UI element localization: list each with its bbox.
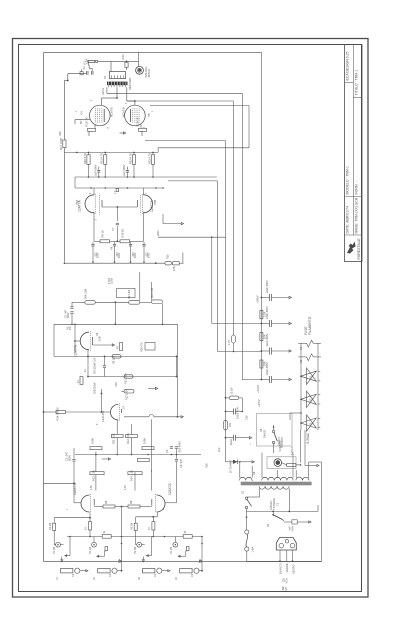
caps C5 — [170, 446, 173, 448]
standby switch — [272, 430, 274, 432]
svg-text:V.NEGRO: V.NEGRO — [279, 440, 282, 451]
svg-text:R21 4.7K: R21 4.7K — [100, 153, 104, 164]
svg-text:R14 10/5W: R14 10/5W — [55, 407, 59, 421]
svg-text:+470V: +470V — [257, 399, 261, 407]
svg-text:R15: R15 — [166, 254, 169, 259]
plug pin wires — [279, 550, 281, 561]
wire transformer to rail 233 — [127, 100, 234, 102]
preamp tube V1B — [157, 495, 166, 512]
svg-text:+410V: +410V — [256, 385, 260, 393]
svg-text:S1: S1 — [82, 66, 86, 70]
tube V2B — [111, 404, 119, 420]
svg-text:R10 100K: R10 100K — [125, 373, 128, 384]
tube V2A — [80, 332, 89, 350]
pill resistor on rail 233 — [232, 335, 236, 343]
svg-text:22uF 450V: 22uF 450V — [265, 280, 269, 293]
svg-text:12AX7A: 12AX7A — [73, 482, 77, 495]
svg-text:TP.1: TP.1 — [79, 119, 83, 125]
bias resistor R33 pill — [229, 396, 239, 400]
wire to rail 225 — [145, 140, 226, 142]
svg-text:R11 1.5K: R11 1.5K — [112, 433, 116, 444]
arrow right of driver — [163, 223, 181, 225]
filament star V1 — [301, 368, 317, 384]
driver grid resistor top — [116, 189, 119, 192]
cap C6 cluster — [176, 449, 178, 459]
title block row line 2 — [353, 97, 362, 99]
V2A plate bracket — [92, 337, 94, 345]
switch wire to left rail — [68, 73, 87, 75]
pilot lamp — [274, 459, 282, 467]
svg-text:BLANCO: BLANCO — [278, 563, 282, 574]
svg-text:R25: R25 — [59, 131, 62, 136]
svg-text:R17 100K: R17 100K — [59, 138, 63, 150]
cathode resistor ch3 — [152, 522, 155, 530]
screen resistor row — [87, 155, 90, 165]
svg-text:4.7K: 4.7K — [228, 340, 231, 345]
primary right wire down — [288, 489, 290, 512]
switch S1 contacts — [91, 71, 93, 75]
svg-text:22uF 450V: 22uF 450V — [265, 362, 269, 375]
filter resistor R30 — [260, 311, 263, 319]
svg-text:600V: 600V — [135, 252, 137, 258]
resistor mid 460 — [137, 459, 149, 462]
svg-text:R7: R7 — [115, 345, 119, 349]
transformer T1 primary winding dark band — [107, 82, 128, 86]
svg-text:R12 1.5K: R12 1.5K — [126, 433, 130, 444]
transformer T2 core — [241, 482, 312, 486]
feedback arrow mid — [120, 132, 124, 134]
primary left wire to switch — [259, 489, 261, 498]
B+ rail x249 short — [248, 106, 250, 148]
svg-text:10uF 450V: 10uF 450V — [265, 306, 269, 319]
svg-text:C6B 220uF: C6B 220uF — [94, 382, 96, 394]
coupling resistors between preamp tubes — [103, 505, 115, 508]
HV tap wires up — [261, 452, 263, 454]
bias resistor vertical pill — [224, 420, 228, 430]
svg-text:120VAC: 120VAC — [269, 500, 273, 510]
svg-text:1.5K: 1.5K — [90, 485, 93, 490]
svg-text:TITULO : TRM-1: TITULO : TRM-1 — [354, 70, 358, 96]
svg-text:V3A: V3A — [75, 200, 79, 205]
title block column divider — [352, 44, 354, 235]
svg-text:600V: 600V — [149, 252, 151, 258]
resistor R16 — [125, 62, 128, 67]
B+ rail x225 — [225, 141, 227, 462]
rectifier diode D7 — [225, 461, 233, 463]
fuse to bottom bus — [246, 551, 248, 561]
V1A grid wire — [74, 502, 81, 504]
vertical link right — [176, 356, 178, 376]
T2 primary winding — [259, 486, 289, 489]
svg-text:220K: 220K — [157, 230, 160, 236]
svg-text:R12 100K: R12 100K — [125, 389, 128, 400]
pot P4 stopper loop — [178, 555, 186, 557]
right 6.3 winding wire to right rail — [309, 461, 322, 463]
svg-text:J1: J1 — [55, 577, 59, 580]
V1A cathode — [89, 513, 91, 522]
svg-text:1K: 1K — [85, 527, 88, 530]
filament link 2 with diode D2 — [298, 356, 306, 358]
wire C12 feed — [218, 351, 262, 353]
svg-text:R22 4.7K: R22 4.7K — [128, 153, 132, 164]
wire plate to rail 249 — [150, 105, 249, 107]
svg-text:600V: 600V — [119, 252, 121, 258]
svg-text:R19 1K: R19 1K — [136, 117, 140, 126]
V2B grid rail — [101, 389, 103, 412]
bias cap 2 — [233, 435, 235, 441]
bus y454.5 — [75, 454, 201, 456]
cap row y245 — [91, 243, 94, 245]
volume pot P2 — [92, 542, 97, 547]
svg-text:T2: T2 — [276, 502, 280, 506]
svg-text:C6A 220uF 16V: C6A 220uF 16V — [93, 357, 96, 374]
cathode wire ch1 — [54, 517, 90, 519]
svg-text:R10 1K: R10 1K — [120, 229, 124, 238]
AC plug — [276, 538, 296, 551]
cap C6A — [104, 356, 106, 365]
svg-text:V2B: V2B — [97, 336, 101, 341]
svg-text:R6: R6 — [104, 500, 108, 504]
driver tube V3A — [85, 195, 94, 213]
resistor R17 on left rail — [63, 140, 66, 148]
logo mark — [347, 242, 356, 254]
svg-text:100uF 50V: 100uF 50V — [236, 407, 239, 419]
svg-text:P1 1M: P1 1M — [53, 547, 56, 554]
svg-text:J4: J4 — [174, 577, 178, 580]
svg-text:2K2: 2K2 — [218, 447, 221, 452]
arrow small mid — [102, 458, 109, 460]
svg-text:AZUL: AZUL — [101, 87, 105, 95]
right link down — [162, 304, 164, 325]
switch S3 — [273, 515, 282, 520]
V1B plate — [151, 499, 153, 506]
cap C1 cluster — [73, 448, 75, 459]
rail x217 — [217, 181, 219, 352]
filter resistor R32 — [260, 360, 263, 368]
V2A grid wire — [75, 340, 80, 342]
filter cap C10 — [268, 294, 270, 301]
cathode resistor ch1 — [89, 522, 92, 530]
wire y180.9 — [168, 180, 218, 182]
svg-text:1K: 1K — [84, 369, 87, 372]
motor cap — [292, 520, 297, 524]
filter cap C13 — [268, 376, 270, 383]
svg-text:R9 1K: R9 1K — [100, 230, 104, 238]
svg-text:DATE: ABR/01/74: DATE: ABR/01/74 — [345, 206, 349, 234]
T2 secondary winding HV — [262, 477, 294, 480]
pot P3 ground — [151, 537, 153, 556]
wire secondary to output line — [110, 61, 112, 71]
svg-text:.1uF 600V: .1uF 600V — [93, 164, 97, 176]
svg-text:T.POWER: T.POWER — [272, 498, 276, 510]
wire into filament rails — [290, 412, 301, 414]
svg-text:2K4 1/2W: 2K4 1/2W — [85, 288, 87, 299]
transformer T1 secondary winding — [109, 72, 125, 79]
wire to speaker jack — [127, 60, 139, 62]
svg-text:P3 1M: P3 1M — [134, 547, 137, 554]
svg-text:R13 1.5K: R13 1.5K — [92, 470, 96, 481]
preamp tube V1A — [81, 495, 89, 512]
V2A cathode bus — [87, 350, 89, 377]
grid leak resistor right — [142, 447, 154, 450]
svg-text:100K: 100K — [143, 438, 147, 444]
svg-text:1.6A: 1.6A — [250, 547, 254, 553]
T2 secondary taps — [239, 462, 241, 478]
left stub verticals — [74, 177, 76, 188]
components right of V2A — [120, 343, 123, 351]
arrow mid low — [148, 388, 155, 390]
fuse F1 — [88, 60, 95, 62]
svg-text:+345V: +345V — [256, 295, 260, 303]
rail x211 — [211, 237, 213, 323]
lamp resistor — [287, 464, 296, 467]
volume pot P4 — [173, 542, 178, 547]
svg-text:6CA7B: 6CA7B — [122, 107, 126, 117]
svg-text:12AU7A: 12AU7A — [101, 410, 105, 422]
left rail x54 — [53, 324, 55, 356]
svg-text:R26 47K: R26 47K — [141, 342, 144, 352]
svg-text:ECA DESIGN 6.25: ECA DESIGN 6.25 — [345, 52, 349, 81]
svg-text:V5: V5 — [147, 113, 151, 117]
bus y511 — [247, 510, 319, 512]
svg-text:SECUND: SECUND — [128, 78, 132, 90]
svg-text:1K: 1K — [77, 380, 80, 383]
svg-text:100K: 100K — [91, 438, 95, 444]
wire y237 mid — [158, 236, 226, 238]
bus y324.3 — [54, 323, 178, 325]
input jack J4 — [180, 569, 192, 573]
pill resistor on bus2 — [124, 375, 133, 378]
feed resistor ch3 — [135, 517, 137, 523]
rail x177 — [177, 324, 179, 417]
svg-text:R16: R16 — [121, 54, 125, 60]
wire V4 grid left — [75, 119, 91, 121]
svg-text:1.5K: 1.5K — [124, 485, 127, 490]
svg-text:R14 1.5K: R14 1.5K — [130, 470, 134, 481]
svg-text:6.3VCA: 6.3VCA — [291, 446, 294, 455]
svg-text:NAME: TRM-(XX).SCH: NAME: TRM-(XX).SCH — [354, 197, 358, 233]
row wires y302.3 — [77, 301, 85, 303]
filter resistor R31 — [260, 333, 263, 341]
feedback wire top — [134, 51, 262, 53]
connector circle — [95, 60, 97, 62]
second bus y376 — [88, 376, 177, 378]
mains switch S2 — [245, 497, 247, 499]
B+ rail x261 — [261, 52, 263, 379]
wire fuse to switch — [87, 60, 90, 62]
svg-text:V4: V4 — [80, 111, 84, 115]
svg-text:FORESTILLE: FORESTILLE — [357, 238, 361, 260]
svg-text:R5 1M: R5 1M — [130, 523, 133, 530]
svg-text:R8: R8 — [129, 500, 133, 504]
svg-text:R18 1K: R18 1K — [85, 117, 89, 126]
bias cap 1 — [233, 409, 235, 415]
input jack J2 — [98, 569, 110, 573]
svg-text:2K4 1/2W: 2K4 1/2W — [152, 287, 154, 298]
svg-text:FILAMENTO: FILAMENTO — [308, 316, 312, 335]
grid leak resistor left — [90, 447, 102, 450]
svg-text:100uF: 100uF — [230, 438, 233, 445]
bus box resistor — [173, 262, 180, 265]
wire V4 plate — [116, 87, 118, 98]
svg-text:1K: 1K — [148, 527, 151, 530]
wire V5 plate — [126, 87, 128, 101]
arrow near transformer — [240, 461, 252, 463]
vertical x151 plate to V1B — [151, 419, 153, 490]
svg-text:NEGRO: NEGRO — [291, 564, 295, 574]
wires into driver tubes — [93, 188, 95, 195]
cathode bracket — [101, 200, 103, 207]
bias resistors under driver — [100, 240, 110, 243]
title block row line 1 — [345, 81, 354, 83]
bus y177 — [75, 176, 217, 178]
coupling pill resistors row — [85, 301, 96, 305]
arrow right PSU — [297, 521, 308, 523]
svg-text:J2: J2 — [92, 577, 96, 580]
svg-text:600V: 600V — [98, 252, 100, 258]
svg-text:T1: T1 — [103, 75, 107, 79]
svg-text:VCA: VCA — [284, 578, 288, 584]
coupling cap row — [97, 170, 100, 172]
svg-text:C7: C7 — [111, 227, 115, 231]
bus pill resistor — [165, 262, 172, 265]
R on ground loop y412 — [44, 411, 57, 413]
svg-text:150: 150 — [229, 422, 232, 427]
verticals from resistor row to tubes — [95, 452, 97, 455]
riser from pills — [139, 272, 141, 301]
filter cap C12 — [268, 348, 270, 355]
hum resistor ch4 on bus — [183, 535, 192, 539]
title block box — [345, 45, 363, 262]
svg-text:600V: 600V — [68, 312, 70, 318]
svg-text:400V: 400V — [292, 525, 295, 531]
svg-text:1M: 1M — [69, 327, 72, 330]
bottom bus wire — [247, 560, 322, 562]
filament feed wires down — [300, 430, 302, 463]
pot P4 feed drop — [174, 537, 176, 543]
power tube V5 6CA7B — [125, 105, 146, 126]
driver cathode components — [116, 222, 119, 224]
svg-text:VERDE: VERDE — [285, 563, 289, 572]
pot P4 ground drop — [201, 537, 203, 571]
svg-text:R20 4.7K: R20 4.7K — [83, 153, 87, 164]
svg-text:1.6A: 1.6A — [84, 58, 88, 64]
hum resistor ch2 on bus — [102, 535, 111, 539]
T2 secondary winding right — [296, 477, 309, 480]
wire ground loop to C1 — [44, 482, 75, 484]
vertical link mid — [114, 302, 116, 324]
svg-text:22uF 450V: 22uF 450V — [265, 333, 269, 346]
filament star V2 — [301, 391, 317, 407]
wire y147.8 — [158, 147, 249, 149]
wire fuse to junction — [98, 60, 127, 62]
ground loop wire left — [44, 52, 135, 54]
svg-text:.1uF 600V: .1uF 600V — [122, 164, 126, 176]
svg-text:R8 1K5: R8 1K5 — [113, 355, 116, 364]
svg-text:R18: R18 — [206, 463, 209, 468]
svg-text:SPKR: SPKR — [147, 68, 151, 77]
bus y152.4 — [64, 151, 158, 153]
svg-text:R1 1M: R1 1M — [49, 523, 52, 530]
power tube V4 6CA7B — [90, 105, 111, 126]
filament star V3 — [301, 415, 317, 431]
svg-text:V3B: V3B — [153, 200, 157, 205]
B+ rail x233 — [233, 101, 235, 335]
svg-text:6CA7B: 6CA7B — [109, 107, 113, 117]
V2B plate wire with hop — [121, 409, 123, 413]
svg-text:.022 600V: .022 600V — [178, 441, 182, 453]
pot P2 ground drop — [121, 537, 123, 571]
small box under bus — [117, 288, 135, 297]
inner border frame — [19, 45, 362, 592]
driver tube V3B — [144, 195, 153, 213]
svg-text:C16: C16 — [245, 415, 248, 420]
svg-text:1M 1/2W: 1M 1/2W — [129, 289, 131, 299]
wire C11 feed — [212, 323, 262, 325]
svg-text:6.3VAC: 6.3VAC — [306, 432, 310, 443]
plate resistors R13 R14 — [90, 472, 104, 475]
mains fuse F2 1.6A — [245, 530, 249, 534]
title block row line 3 — [345, 195, 362, 197]
volume pot P3 — [137, 542, 142, 547]
V1B grid wire — [165, 502, 176, 504]
cathode resistor R18 — [94, 125, 96, 128]
T1 winding stubs — [107, 85, 109, 87]
svg-text:LINE: LINE — [283, 586, 285, 592]
T2 secondary winding left — [239, 477, 252, 480]
heater bus — [67, 536, 202, 538]
filament rails — [300, 343, 302, 430]
V1A plate — [93, 499, 95, 506]
wire transformer to rail 242 — [106, 87, 108, 93]
stage coupling resistors — [111, 435, 123, 438]
svg-text:P2 1M: P2 1M — [89, 547, 92, 554]
svg-text:P4 1M: P4 1M — [170, 547, 173, 554]
wire into bus — [182, 253, 184, 264]
svg-text:1/2W: 1/2W — [110, 277, 114, 284]
pot P2 feed drop — [93, 537, 95, 543]
svg-text:10W: 10W — [173, 265, 176, 271]
svg-text:12AX7A: 12AX7A — [73, 344, 77, 357]
filament top link with diode D1 — [298, 342, 306, 344]
cap cluster left — [71, 302, 73, 306]
standby switch box — [257, 414, 293, 447]
pill resistor on cathode bus — [112, 355, 121, 358]
pot P2 stopper loop — [97, 555, 105, 557]
filter cap C11 — [268, 320, 270, 327]
pilot lamp box — [267, 457, 296, 469]
B+ rail x242 — [241, 93, 243, 380]
cathode wire ch3 — [136, 516, 158, 518]
title block row line 4 — [345, 234, 362, 236]
svg-text:600V: 600V — [67, 455, 71, 461]
input jack J1 — [61, 569, 73, 573]
svg-text:C6 .047: C6 .047 — [179, 458, 183, 468]
svg-text:D7 1N4007: D7 1N4007 — [229, 459, 233, 473]
svg-text:10 1W: 10 1W — [231, 387, 234, 395]
cathode resistor R19 — [140, 125, 142, 128]
pot P1 ground — [69, 537, 71, 556]
left rail from switch — [64, 80, 67, 82]
svg-text:R23 4.7K: R23 4.7K — [147, 153, 151, 164]
bus y262 — [64, 262, 164, 264]
driver tail wires — [93, 212, 95, 221]
volume pot P1 — [56, 542, 61, 547]
svg-text:FORM : -: FORM : - — [354, 180, 358, 194]
switch to fuse rail — [246, 509, 248, 530]
svg-text:C5: C5 — [165, 449, 169, 453]
svg-text:MODELO : TRM-1: MODELO : TRM-1 — [345, 166, 349, 195]
